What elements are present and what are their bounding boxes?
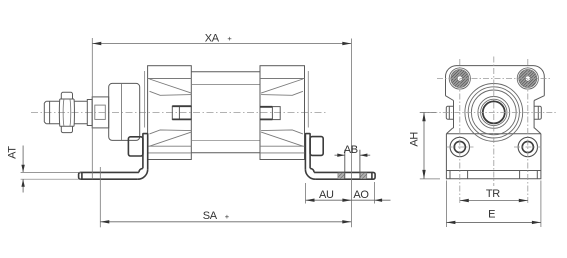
central bore circles [465, 84, 523, 142]
centerline main axis [31, 112, 327, 114]
left foot plate [79, 172, 139, 179]
dim AH [423, 112, 425, 179]
right foot hole hatch bands [338, 173, 345, 179]
dim AT line + arrows [22, 146, 24, 193]
tie rod nut left (hatched) [449, 68, 470, 89]
front cover plate line [144, 71, 146, 128]
front end cap [148, 66, 192, 160]
dim TR [460, 200, 528, 202]
tie rod nut right (hatched) [517, 68, 538, 89]
svg-text:TR: TR [486, 188, 500, 200]
left bracket clamp nut [128, 137, 143, 156]
end view centerlines [437, 78, 551, 80]
left foot bracket upright [143, 134, 148, 170]
foot strip bottom [446, 171, 541, 179]
dim E [446, 181, 541, 228]
right foot plate [314, 172, 375, 179]
svg-text:SA: SA [203, 210, 218, 222]
dim SA line [100, 221, 351, 223]
svg-text:AB: AB [344, 144, 358, 156]
piston rod [74, 101, 87, 124]
svg-text:AH: AH [408, 132, 420, 147]
dim XA right extension / rear hole axis [350, 39, 352, 228]
svg-text:+: + [227, 34, 232, 43]
dim AB line + arrows [335, 154, 371, 156]
front port [172, 106, 191, 119]
dim AU AO line [306, 199, 391, 201]
svg-text:AU: AU [319, 189, 334, 201]
dim AT extensions [21, 172, 81, 179]
svg-text:XA: XA [205, 32, 220, 44]
rear end cap [260, 66, 305, 160]
rod bearing boss [92, 97, 109, 128]
left foot bend [138, 168, 148, 179]
dim XA line [92, 43, 351, 45]
svg-text:AT: AT [7, 146, 19, 159]
svg-text:AO: AO [353, 189, 369, 201]
dim AU AO extensions [306, 182, 375, 204]
svg-text:E: E [488, 208, 495, 220]
right foot bracket upright [305, 134, 310, 170]
end cap outline [446, 66, 545, 101]
right foot bend [305, 168, 315, 179]
foot hole left [450, 137, 469, 156]
right bracket clamp nut [310, 137, 323, 156]
piston rod threaded tip [44, 101, 60, 124]
mounting plate front [446, 128, 541, 171]
svg-text:+: + [225, 212, 230, 221]
dim SA extension left [99, 167, 101, 227]
foot hole right [518, 137, 537, 156]
hex nut [59, 92, 74, 132]
rod collar washer [87, 100, 92, 126]
dim AB extensions [345, 150, 360, 179]
barrel [191, 72, 260, 153]
bearing cap [109, 83, 140, 140]
dim XA extension left [91, 38, 93, 179]
side port tabs [446, 101, 453, 129]
rear port [260, 107, 280, 120]
rear cover plate line [307, 71, 309, 128]
